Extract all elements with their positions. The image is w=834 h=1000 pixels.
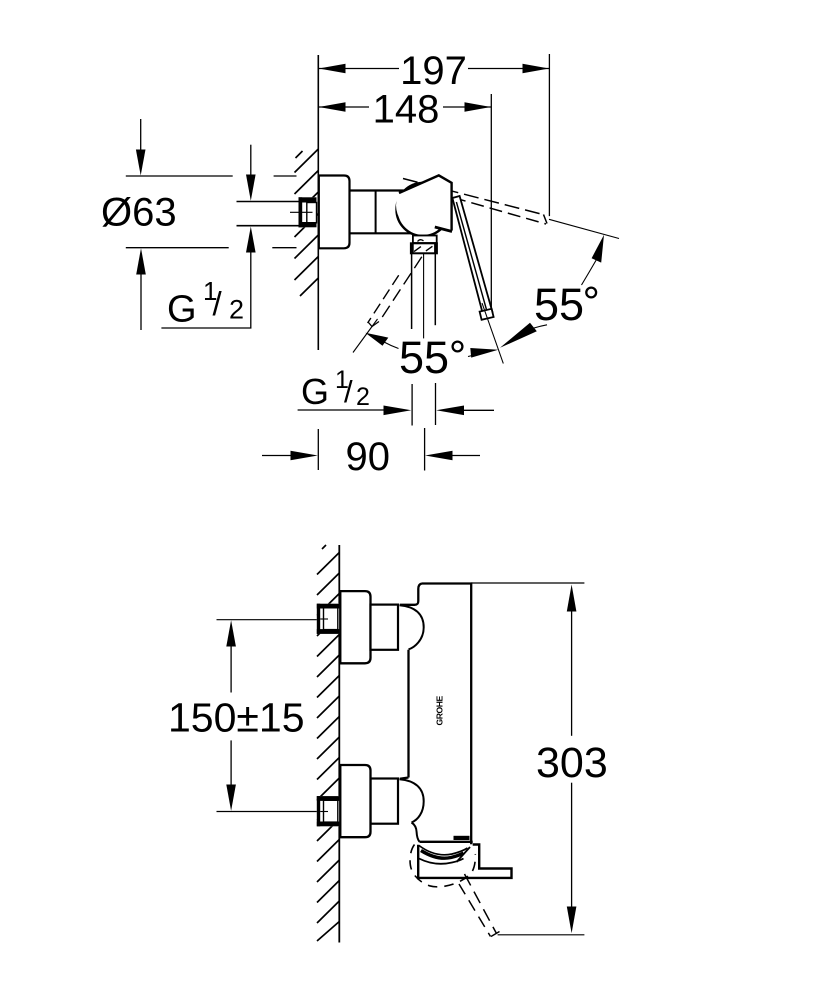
dashed handshower outline: [410, 845, 475, 887]
cartridge ball: [397, 183, 450, 236]
thread block (wall connector): [299, 197, 317, 227]
Ø63 arrow up: [140, 272, 142, 330]
90 dim right arrow: [425, 451, 452, 461]
G1/2 #2 extension lines: [411, 384, 413, 426]
150 arrow down: [226, 785, 236, 811]
escutcheon (top view): [319, 176, 350, 249]
upper in-wall nut: [317, 604, 340, 634]
spray axis thin line: [353, 319, 378, 353]
right 55 arc lower piece + arrow: [500, 323, 537, 348]
Ø63 extension line bottom: [126, 247, 297, 249]
svg-text:/: /: [213, 285, 223, 322]
upper union dome: [400, 605, 424, 649]
dashed alt handle end tick: [544, 215, 548, 224]
svg-text:GROHE: GROHE: [434, 696, 444, 726]
alt handle axis thin line: [549, 219, 619, 238]
dashed hose line left: [459, 884, 491, 937]
cup V notch: [457, 847, 471, 862]
body tube lines: [350, 189, 413, 191]
outlet cup bottom arc: [419, 859, 464, 864]
303 dimension line: [571, 610, 573, 736]
dashed spray line right: [379, 257, 422, 322]
dashed spray line left: [368, 275, 399, 323]
pipe centerline: [290, 211, 313, 213]
holder bracket: [418, 845, 511, 878]
303 top extension: [471, 582, 584, 584]
Ø63 extension line top: [126, 175, 297, 177]
svg-text:148: 148: [373, 88, 440, 132]
90 right extension line: [424, 428, 426, 471]
303 bottom extension: [498, 934, 585, 936]
lower union dome: [400, 779, 424, 822]
G1/2 #2 leader + arrow: [298, 409, 384, 411]
150 arrow up: [226, 620, 236, 646]
right 55 arc upper piece + arrow: [582, 260, 597, 286]
wall hatching (front view): [317, 545, 339, 941]
svg-text:2: 2: [229, 295, 244, 325]
wall surface line: [317, 55, 319, 350]
svg-text:55: 55: [399, 332, 449, 383]
outlet pipe centerline: [423, 254, 425, 338]
left 55 arc right piece + arrow: [468, 353, 484, 357]
svg-text:150±15: 150±15: [168, 694, 305, 740]
spray end tick: [369, 322, 380, 327]
dashed hose line right: [465, 874, 497, 934]
dimension 197 line: [318, 68, 549, 70]
G1/2 #1 arrow up + leader: [246, 227, 256, 253]
svg-text:55: 55: [534, 279, 584, 330]
lever end cap: [480, 309, 494, 320]
hose end tick: [491, 932, 500, 937]
wall line lower segment (90 dim extension): [317, 429, 319, 470]
outlet cup thick lip: [421, 851, 464, 859]
under-ball collar: [413, 236, 437, 244]
svg-text:197: 197: [400, 49, 467, 93]
dashed alt handle lower line (behind): [453, 198, 546, 225]
handle centerline: [482, 303, 503, 364]
supply pipe lines: [237, 202, 300, 226]
svg-text:303: 303: [536, 739, 608, 787]
lower escutcheon: [340, 765, 370, 837]
G1/2 #2 right arrow: [436, 406, 464, 416]
arrow 148 left: [319, 102, 346, 112]
svg-text:/: /: [344, 374, 353, 409]
outlet dark mark: [454, 836, 470, 840]
extension line right (197): [548, 54, 550, 216]
handle paddle: [396, 175, 452, 231]
upper escutcheon: [340, 591, 370, 663]
upper S-union cone: [371, 605, 399, 650]
svg-text:2: 2: [356, 383, 370, 411]
wall hatching (top view): [295, 149, 319, 296]
arrow 197 right: [523, 64, 550, 74]
dashed alt handle upper line (behind): [403, 179, 543, 215]
Ø63 arrow down: [140, 119, 142, 158]
303 arrow down: [567, 907, 577, 934]
outlet pipe: [411, 254, 413, 329]
wall surface line (front view): [338, 545, 340, 943]
body (front view): [400, 584, 473, 845]
G1/2 #1 arrow down: [250, 145, 252, 176]
handle lever shaft: [452, 196, 492, 315]
arrow 148 right: [465, 102, 491, 112]
svg-text:G: G: [301, 371, 329, 412]
paddle bottom edge: [435, 227, 452, 232]
lower S-union cone: [371, 779, 399, 824]
tube joint line: [375, 191, 377, 234]
outlet cup rim back arc: [419, 846, 468, 855]
left 55 arc left piece + arrow: [365, 333, 388, 346]
dim line lower connection: [217, 811, 329, 813]
303 arrow up: [567, 585, 577, 612]
dimension 148 line: [318, 106, 491, 108]
svg-text:G: G: [167, 289, 197, 331]
lower in-wall nut: [317, 796, 340, 826]
90 dim left arrow: [262, 455, 293, 457]
arrow 197 left: [319, 64, 346, 74]
dim line upper connection: [217, 619, 329, 621]
under-ball nut: [411, 243, 437, 253]
extension line 148: [490, 94, 492, 310]
svg-text:Ø63: Ø63: [101, 191, 177, 235]
svg-text:90: 90: [346, 435, 391, 479]
